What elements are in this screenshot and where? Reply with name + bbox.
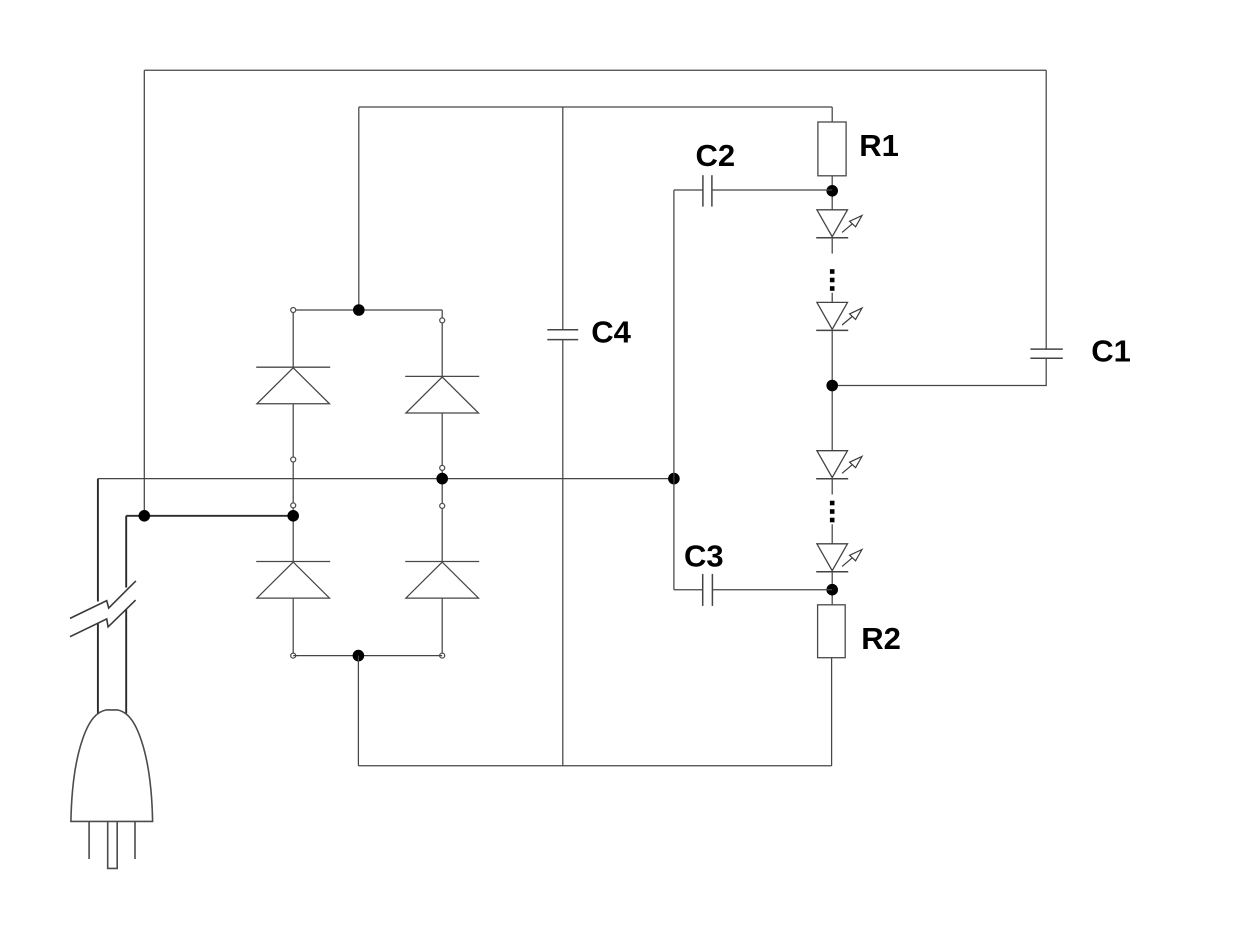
- node AC B left: [139, 510, 151, 522]
- wire bridge top: [293, 309, 442, 311]
- terminal D3 top: [291, 503, 296, 508]
- wire LED D5 to dots: [831, 238, 833, 254]
- LED D8: [816, 544, 862, 572]
- LED D6: [816, 302, 862, 330]
- plug prong middle: [108, 821, 118, 868]
- node AC B right: [287, 510, 299, 522]
- node bridge top: [353, 304, 365, 316]
- svg-text:C2: C2: [696, 138, 736, 173]
- LED D5: [816, 210, 862, 238]
- diode D1: [256, 367, 330, 404]
- wire dots to LED D6: [831, 293, 833, 303]
- cable break mark lower: [70, 600, 136, 637]
- wire LED D6 to mid node: [831, 330, 833, 450]
- diode D1 top lead: [292, 310, 294, 367]
- plug wire B upper: [125, 516, 127, 588]
- capacitor C2 left wire: [674, 189, 703, 191]
- wire C2C3 vertical: [673, 190, 675, 590]
- capacitor C4 top wire: [562, 107, 564, 330]
- terminal D2 bottom: [440, 465, 445, 470]
- diode D3 bottom lead: [292, 598, 294, 656]
- wire bridge bottom: [293, 655, 442, 657]
- wire left outer vertical: [143, 70, 145, 516]
- diode D2 top lead: [441, 310, 443, 376]
- ellipsis dots string 1: [830, 269, 835, 291]
- node bridge bottom: [353, 650, 365, 662]
- capacitor C3 left wire: [674, 589, 703, 591]
- terminal D2 top: [440, 318, 445, 323]
- capacitor C2 right wire: [712, 189, 832, 191]
- wire R1 to node: [831, 176, 833, 210]
- resistor R1: [818, 122, 846, 176]
- plug wire B lower: [125, 610, 127, 714]
- diode D4 bottom lead: [441, 598, 443, 656]
- plug wire A lower: [97, 624, 99, 714]
- plug wire A upper: [97, 479, 99, 602]
- wire R2 to bottom rail: [831, 658, 833, 766]
- svg-text:C3: C3: [684, 539, 724, 574]
- wire LED D7 to dots: [831, 479, 833, 495]
- wire mid AC rail: [98, 478, 674, 480]
- plug prong left: [88, 821, 90, 859]
- terminal D4 top: [440, 503, 445, 508]
- LED D7: [816, 451, 862, 479]
- capacitor C3 right wire: [712, 589, 832, 591]
- ellipsis dots string 2: [830, 501, 835, 523]
- capacitor C2: [703, 175, 712, 206]
- diode D3: [256, 562, 330, 599]
- wire bridge bottom to rail: [357, 656, 359, 766]
- wire dots to LED D8: [831, 524, 833, 544]
- wire second rail: [359, 106, 832, 108]
- wire top rail: [144, 69, 1046, 71]
- capacitor C3: [703, 574, 713, 606]
- svg-text:C4: C4: [591, 315, 631, 350]
- wire AC line B thick: [126, 515, 293, 517]
- cable break mark upper: [70, 581, 136, 619]
- node above R2: [826, 584, 838, 596]
- svg-text:R1: R1: [859, 128, 899, 163]
- capacitor C1: [1030, 349, 1062, 358]
- node LED mid junction: [826, 380, 838, 392]
- diode D1 bottom lead / D3 top lead: [292, 404, 294, 562]
- wire C1 bottom to LED node: [832, 358, 1046, 385]
- diode D2: [405, 376, 479, 413]
- wire LED D8 to R2 node: [831, 572, 833, 605]
- capacitor C4: [547, 330, 578, 340]
- svg-text:R2: R2: [861, 621, 901, 656]
- terminal D4 bottom: [440, 653, 445, 658]
- diode D4: [405, 562, 479, 599]
- node bridge right mid: [436, 473, 448, 485]
- wire rail2 to bridge top: [358, 107, 360, 310]
- wire C1 branch vertical: [1045, 70, 1047, 349]
- resistor R2: [818, 605, 846, 658]
- terminal D1 top: [291, 308, 296, 313]
- svg-text:C1: C1: [1091, 333, 1131, 368]
- node below R1: [826, 185, 838, 197]
- plug body: [71, 710, 153, 822]
- capacitor C4 bottom wire: [562, 340, 564, 766]
- node C2C3 tap: [668, 473, 680, 485]
- wire bottom rail: [358, 765, 831, 767]
- terminal D1 bottom: [291, 457, 296, 462]
- plug prong right: [134, 821, 136, 859]
- wire rail2 to R1: [831, 107, 833, 122]
- terminal D3 bottom: [291, 653, 296, 658]
- diode D2 bottom lead / D4 top lead: [441, 413, 443, 562]
